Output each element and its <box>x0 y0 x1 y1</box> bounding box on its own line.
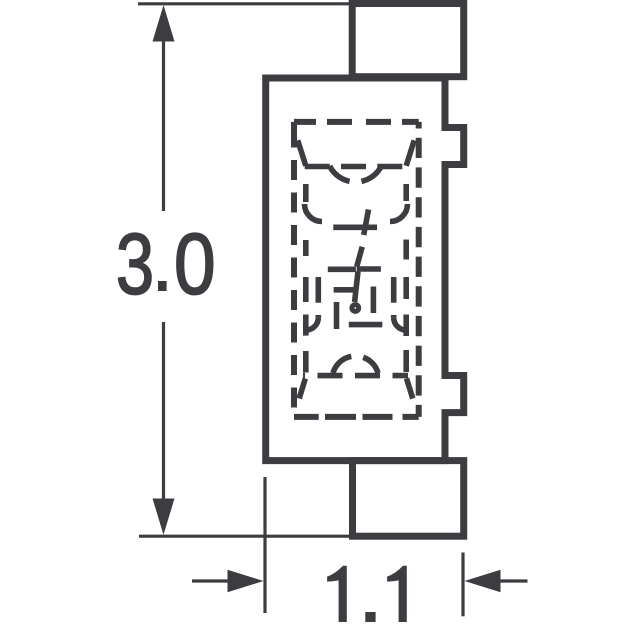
left extension line 1.1 <box>263 477 266 613</box>
bottom dome arc <box>333 356 378 373</box>
dashed hidden outline rect left <box>291 122 297 417</box>
bottom slant left <box>299 379 305 399</box>
bottom terminal tab <box>353 461 464 537</box>
top extension line <box>138 2 352 5</box>
left terminal vertical <box>315 277 321 318</box>
lever cross line 2 left <box>328 266 356 272</box>
top contact slant left <box>298 140 306 166</box>
dashed hidden outline rect top <box>294 119 419 125</box>
body outline with side bumps <box>266 78 464 461</box>
stem box bottom <box>349 322 383 328</box>
upper left hook <box>305 204 323 222</box>
pivot dot center highlight <box>354 307 356 309</box>
stem box top <box>334 287 356 293</box>
top dome arc <box>330 166 382 182</box>
top contact slant right <box>406 140 414 166</box>
svg-text:0: 0 <box>174 217 216 313</box>
right arrowhead <box>465 570 501 592</box>
lever lower segment <box>355 272 358 303</box>
dimension text 1.1 period <box>365 612 375 622</box>
arrowhead up <box>153 5 175 42</box>
right terminal vertical <box>391 277 397 318</box>
bottom slant right <box>407 379 413 399</box>
left arrow tail <box>192 579 228 582</box>
stem box right <box>371 287 377 314</box>
right arrow tail <box>500 579 528 582</box>
right extension line 1.1 <box>461 553 464 617</box>
dimension line 3.0 lower segment <box>162 322 165 500</box>
dimension text 1.1 digit one right <box>387 566 407 622</box>
dimension line 3.0 upper segment <box>162 38 165 211</box>
top contact line <box>305 164 407 170</box>
lever upper segment <box>364 210 369 236</box>
inner left dashed line <box>303 184 309 373</box>
right terminal hook <box>394 318 407 331</box>
lever middle segment <box>357 247 363 267</box>
lever cross line 2 right <box>357 266 381 272</box>
bottom extension line <box>139 535 353 538</box>
pivot dot <box>349 302 361 314</box>
top terminal tab <box>352 4 464 77</box>
left arrowhead <box>228 570 264 592</box>
svg-text:3: 3 <box>116 216 154 312</box>
upper right hook <box>390 204 408 222</box>
arrowhead down <box>153 499 175 535</box>
stem box left <box>334 302 340 329</box>
dimension text 1.1 digit one left <box>327 566 347 622</box>
inner right dashed line <box>403 184 409 372</box>
left terminal hook <box>306 318 319 331</box>
dashed hidden outline rect right <box>416 122 422 417</box>
dashed hidden outline rect bottom <box>294 414 419 420</box>
lever cross line 1 <box>333 225 377 231</box>
bottom contact line <box>303 373 408 379</box>
